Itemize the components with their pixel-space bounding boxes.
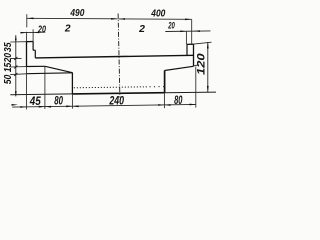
svg-text:120: 120 [196,53,208,75]
svg-text:20: 20 [168,21,175,31]
svg-text:35: 35 [3,42,14,52]
hidden dotted line in rib [74,87,148,88]
svg-text:15: 15 [3,62,14,72]
ext right upstand top to 120 dim [194,42,212,44]
left upstand inner face [32,42,34,51]
far-edge line left [26,72,72,75]
svg-text:400: 400 [150,8,165,19]
rib left side [71,73,73,94]
svg-text:80: 80 [174,93,183,107]
svg-text:20: 20 [37,24,46,35]
ext 240|80 below rib [163,93,165,109]
svg-text:50: 50 [3,74,14,84]
ext right 20 dim right / 400 ext [191,19,193,43]
dimension line 120 right [207,42,209,92]
dimension line 20 right [165,30,210,33]
ext left edge up [26,14,28,27]
slash ticks on left stack [14,57,17,60]
ext far-edge to left [10,73,26,76]
svg-text:80: 80 [54,94,63,108]
ext right 20 dim left [185,31,187,44]
long bottom line: rib bottom + extensions both sides [10,93,72,96]
left flange bottom [27,65,46,67]
svg-text:2: 2 [64,24,71,35]
stub from right corner to ext [194,65,199,66]
right outer edge [193,44,195,66]
top surface [35,55,193,58]
left slope down to rib [45,66,73,72]
dimension line 400 [119,18,192,20]
page mark arrow bottom-left [12,104,19,106]
svg-text:490: 490 [70,8,85,19]
ext 80|240 below rib [71,94,73,109]
ext surface tick left [10,57,21,59]
ext right end (offset) [195,67,197,108]
ext upstand top to left [10,41,26,43]
bottom dimension line 45 80 240 80 [12,104,196,107]
left stacked dimension line [15,35,17,96]
right upstand inner face [186,44,188,55]
ext upstand inner up [32,29,34,41]
left step horizontal [33,49,35,51]
ext flange bottom to left [10,66,26,68]
left step vertical [34,50,36,58]
left upstand top [26,41,33,43]
svg-text:45: 45 [29,94,41,108]
ext left edge down to bottom dim [26,67,28,110]
dimension line 490 [27,17,118,20]
centerline (dash-dot axis) [118,14,120,98]
dimension line 20 left [20,31,45,34]
ext 45|80 [44,67,46,109]
svg-text:240: 240 [109,94,125,108]
left outer edge [26,41,28,67]
rib right side [164,70,166,92]
right slope / flange bottom [165,66,194,70]
right upstand top [187,43,194,45]
svg-text:2: 2 [138,24,145,35]
